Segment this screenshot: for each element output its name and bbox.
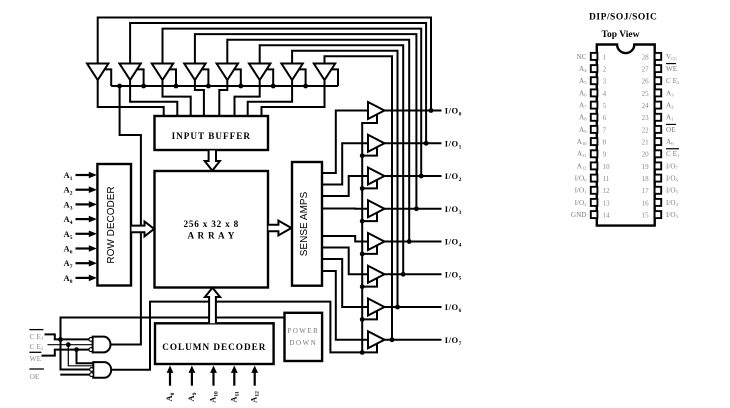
wire T2 output into input buffer xyxy=(130,79,177,116)
wire sense amp output 4 to output buffer xyxy=(322,236,368,242)
input A10 arrow xyxy=(212,372,214,386)
wire T4 enable flank xyxy=(201,69,208,86)
svg-text:OE: OE xyxy=(666,126,676,134)
junction on enable bus at T4 xyxy=(206,84,211,89)
wire I/O2 pin line xyxy=(385,175,442,177)
svg-text:WE: WE xyxy=(30,354,42,363)
wire gate G1 output to input-enable bus xyxy=(111,87,141,345)
svg-text:20: 20 xyxy=(642,151,650,159)
output buffer triangle T1out xyxy=(368,102,385,119)
wire WE xyxy=(42,350,90,356)
junction CE1 xyxy=(58,337,63,342)
input buffer triangle T6 xyxy=(249,64,270,81)
wire I/O5 pin line xyxy=(385,273,442,275)
block 256x32x8 ARRAY xyxy=(155,171,269,288)
wire CE1 to gate G2 xyxy=(61,339,90,369)
svg-text:13: 13 xyxy=(603,199,611,207)
wire I/O0 pin line xyxy=(385,110,442,112)
wire CE2 to gate G2 xyxy=(68,345,93,366)
wire enable tap T3out xyxy=(362,180,377,189)
svg-text:2: 2 xyxy=(603,65,607,73)
wire I/O5 top loop xyxy=(260,45,404,274)
label CE1 with overbar xyxy=(29,329,43,331)
DIP package body with notch xyxy=(597,45,655,226)
svg-text:16: 16 xyxy=(642,199,650,207)
input A11 arrow xyxy=(233,372,235,386)
pin 6 (left) xyxy=(591,114,598,121)
wire OE xyxy=(60,374,89,376)
label WE with overbar xyxy=(29,351,41,353)
pin 4 (left) xyxy=(591,89,598,96)
bubble G2 CE1 input xyxy=(90,368,94,372)
wire enable tap T8out xyxy=(362,344,377,353)
wire enable tap T6out xyxy=(362,278,377,287)
pin 19 (right) xyxy=(655,162,662,169)
svg-text:WE: WE xyxy=(666,65,678,73)
svg-text:12: 12 xyxy=(603,187,611,195)
pin 24 (right) xyxy=(655,102,662,109)
svg-text:NC: NC xyxy=(577,53,587,61)
junction I/O6 xyxy=(395,305,400,310)
pin 20 (right) xyxy=(655,150,662,157)
pin 15 (right) xyxy=(655,211,662,218)
block INPUT BUFFER xyxy=(155,116,269,150)
wire I/O7 top loop xyxy=(325,56,393,339)
block COLUMN DECODER xyxy=(155,323,274,364)
wire T1 output into input buffer xyxy=(98,79,164,116)
svg-text:ROW DECODER: ROW DECODER xyxy=(106,186,117,263)
wire I/O1 top loop xyxy=(130,23,426,143)
svg-text:COLUMN DECODER: COLUMN DECODER xyxy=(162,342,266,352)
wire T7 enable flank xyxy=(298,69,305,86)
bubble G1 WE input xyxy=(89,348,93,352)
svg-text:INPUT BUFFER: INPUT BUFFER xyxy=(172,131,251,141)
wire sense amp output 6 to output buffer xyxy=(322,259,368,307)
svg-text:17: 17 xyxy=(642,187,650,195)
svg-text:22: 22 xyxy=(642,126,650,134)
input buffer triangle T7 xyxy=(281,64,302,81)
pin 22 (right) xyxy=(655,126,662,133)
junction I/O3 xyxy=(414,206,419,211)
svg-text:26: 26 xyxy=(642,78,650,86)
pin 11 (left) xyxy=(591,175,598,182)
pin 21 (right) xyxy=(655,138,662,145)
wire T8 enable flank xyxy=(331,69,338,86)
arrow column decoder to array xyxy=(205,288,220,324)
svg-text:11: 11 xyxy=(603,175,610,183)
wire enable tap T4out xyxy=(362,213,377,222)
input-enable bus xyxy=(111,85,338,87)
pin 26 (right) xyxy=(655,77,662,84)
wire sense amp output 1 to output buffer xyxy=(322,143,368,184)
svg-text:DIP/SOJ/SOIC: DIP/SOJ/SOIC xyxy=(589,12,657,22)
pin 16 (right) xyxy=(655,199,662,206)
junction on enable bus at T3 xyxy=(174,84,179,89)
input buffer triangle T2 xyxy=(119,64,140,81)
pin 27 (right) xyxy=(655,65,662,72)
wire CE1 to power down xyxy=(61,318,285,340)
wire I/O4 top loop xyxy=(227,40,409,242)
wire I/O0 top loop xyxy=(98,18,431,111)
block POWER DOWN xyxy=(285,313,323,361)
junction WE xyxy=(74,347,79,352)
wire I/O6 top loop xyxy=(292,51,397,307)
wire T5 output into input buffer xyxy=(219,79,227,116)
block SENSE AMPS xyxy=(292,162,322,286)
junction CE2 xyxy=(66,342,71,347)
pin 18 (right) xyxy=(655,175,662,182)
pin 13 (left) xyxy=(591,199,598,206)
output buffer triangle T8out xyxy=(368,331,385,348)
junction I/O2 xyxy=(419,174,424,179)
junction on enable bus at T7 xyxy=(303,84,308,89)
wire CE2 xyxy=(48,344,93,346)
wire sense amp output 7 to output buffer xyxy=(322,271,368,340)
svg-text:8: 8 xyxy=(603,138,607,146)
input A12 arrow xyxy=(254,372,256,386)
bubble G2 OE input xyxy=(90,373,94,377)
svg-text:1: 1 xyxy=(603,53,607,61)
wire sense amp output 0 to output buffer xyxy=(322,111,368,174)
svg-text:25: 25 xyxy=(642,90,650,98)
junction I/O0 xyxy=(429,108,434,113)
wire CE1 xyxy=(45,334,90,339)
input buffer triangle T4 xyxy=(184,64,205,81)
arrow input buffer to array xyxy=(205,151,220,171)
svg-text:256 x 32 x 8: 256 x 32 x 8 xyxy=(184,219,240,229)
output buffer triangle T4out xyxy=(368,200,385,217)
svg-text:15: 15 xyxy=(642,212,650,220)
svg-text:23: 23 xyxy=(642,114,650,122)
svg-text:OE: OE xyxy=(30,372,40,381)
wire T8 output into input buffer xyxy=(262,79,325,116)
bubble G1 CE1 input xyxy=(89,338,93,342)
wire sense amp output 5 to output buffer xyxy=(322,248,368,275)
svg-text:3: 3 xyxy=(603,78,607,86)
wire enable tap T7out xyxy=(362,311,377,320)
wire T3 output into input buffer xyxy=(163,79,191,116)
pin 5 (left) xyxy=(591,102,598,109)
pin 12 (left) xyxy=(591,187,598,194)
wire T6 output into input buffer xyxy=(235,79,260,116)
wire I/O4 pin line xyxy=(385,241,442,243)
junction I/O7 xyxy=(390,337,395,342)
svg-text:21: 21 xyxy=(642,138,650,146)
wire T2 enable flank xyxy=(136,69,143,86)
output buffer triangle T3out xyxy=(368,168,385,185)
pin 1 (left) xyxy=(591,53,598,60)
wire T6 enable flank xyxy=(266,69,273,86)
junction on enable bus at T5 xyxy=(238,84,243,89)
junction I/O5 xyxy=(401,272,406,277)
pin 3 (left) xyxy=(591,77,598,84)
svg-text:28: 28 xyxy=(642,53,650,61)
wire I/O7 pin line xyxy=(385,339,442,341)
svg-text:A R R A Y: A R R A Y xyxy=(187,231,235,241)
pin 9 (left) xyxy=(591,150,598,157)
svg-text:14: 14 xyxy=(603,212,611,220)
wire I/O2 top loop xyxy=(163,29,422,176)
input buffer triangle T5 xyxy=(217,64,238,81)
gate G2 output-enable xyxy=(93,362,111,378)
junction on enable bus at T2 xyxy=(141,84,146,89)
input buffer triangle T1 xyxy=(87,64,108,81)
wire WE to gate G2 xyxy=(77,350,94,364)
gate G1 write-enable xyxy=(93,337,111,353)
input buffer triangle T3 xyxy=(152,64,173,81)
pin 14 (left) xyxy=(591,211,598,218)
pin 2 (left) xyxy=(591,65,598,72)
wire T1 enable flank xyxy=(104,69,111,86)
svg-text:4: 4 xyxy=(603,90,607,98)
pin 23 (right) xyxy=(655,114,662,121)
svg-text:18: 18 xyxy=(642,175,650,183)
wire sense amp output 2 to output buffer xyxy=(322,176,368,196)
pin 28 (right) xyxy=(655,53,662,60)
overbar pin 27 xyxy=(666,63,676,65)
junction I/O1 xyxy=(424,141,429,146)
wire sense amp output 3 to output buffer xyxy=(322,208,368,210)
svg-text:POWER: POWER xyxy=(287,327,319,335)
svg-text:19: 19 xyxy=(642,163,650,171)
pin 17 (right) xyxy=(655,187,662,194)
input A9 arrow xyxy=(191,372,193,386)
input buffer triangle T8 xyxy=(314,64,335,81)
svg-text:DOWN: DOWN xyxy=(289,339,317,347)
wire T3 enable flank xyxy=(169,69,176,86)
svg-text:9: 9 xyxy=(603,151,607,159)
input A0 arrow xyxy=(169,372,171,386)
svg-text:10: 10 xyxy=(603,163,611,171)
arrow array to sense amps xyxy=(268,221,291,236)
wire I/O3 top loop xyxy=(195,34,417,209)
overbar pin 20 xyxy=(666,148,679,150)
junction enable bus feed xyxy=(117,84,122,89)
output buffer triangle T6out xyxy=(368,266,385,283)
junction I/O4 xyxy=(407,239,412,244)
output buffer triangle T2out xyxy=(368,135,385,152)
block ROW DECODER xyxy=(97,164,131,286)
overbar pin 22 xyxy=(666,123,676,125)
arrow row decoder to array xyxy=(132,222,155,237)
pin 8 (left) xyxy=(591,138,598,145)
wire enable tap T2out xyxy=(362,147,377,156)
svg-text:27: 27 xyxy=(642,65,650,73)
pin 25 (right) xyxy=(655,89,662,96)
svg-text:5: 5 xyxy=(603,102,607,110)
output buffer triangle T7out xyxy=(368,299,385,316)
output buffer triangle T5out xyxy=(368,233,385,250)
label OE with overbar xyxy=(29,368,44,370)
wire gate G2 output-enable to output buffers xyxy=(111,114,377,369)
wire T5 enable flank xyxy=(234,69,241,86)
svg-text:SENSE AMPS: SENSE AMPS xyxy=(299,191,310,256)
junction on enable bus at T6 xyxy=(271,84,276,89)
pin 7 (left) xyxy=(591,126,598,133)
svg-text:Top View: Top View xyxy=(602,30,640,40)
svg-text:7: 7 xyxy=(603,126,607,134)
svg-text:6: 6 xyxy=(603,114,607,122)
wire T7 output into input buffer xyxy=(248,79,292,116)
wire I/O6 pin line xyxy=(385,306,442,308)
svg-text:24: 24 xyxy=(642,102,650,110)
wire I/O3 pin line xyxy=(385,208,442,210)
pin 10 (left) xyxy=(591,162,598,169)
wire I/O1 pin line xyxy=(385,142,442,144)
wire T4 output into input buffer xyxy=(195,79,204,116)
wire enable tap T5out xyxy=(362,245,377,254)
svg-text:GND: GND xyxy=(571,211,587,219)
